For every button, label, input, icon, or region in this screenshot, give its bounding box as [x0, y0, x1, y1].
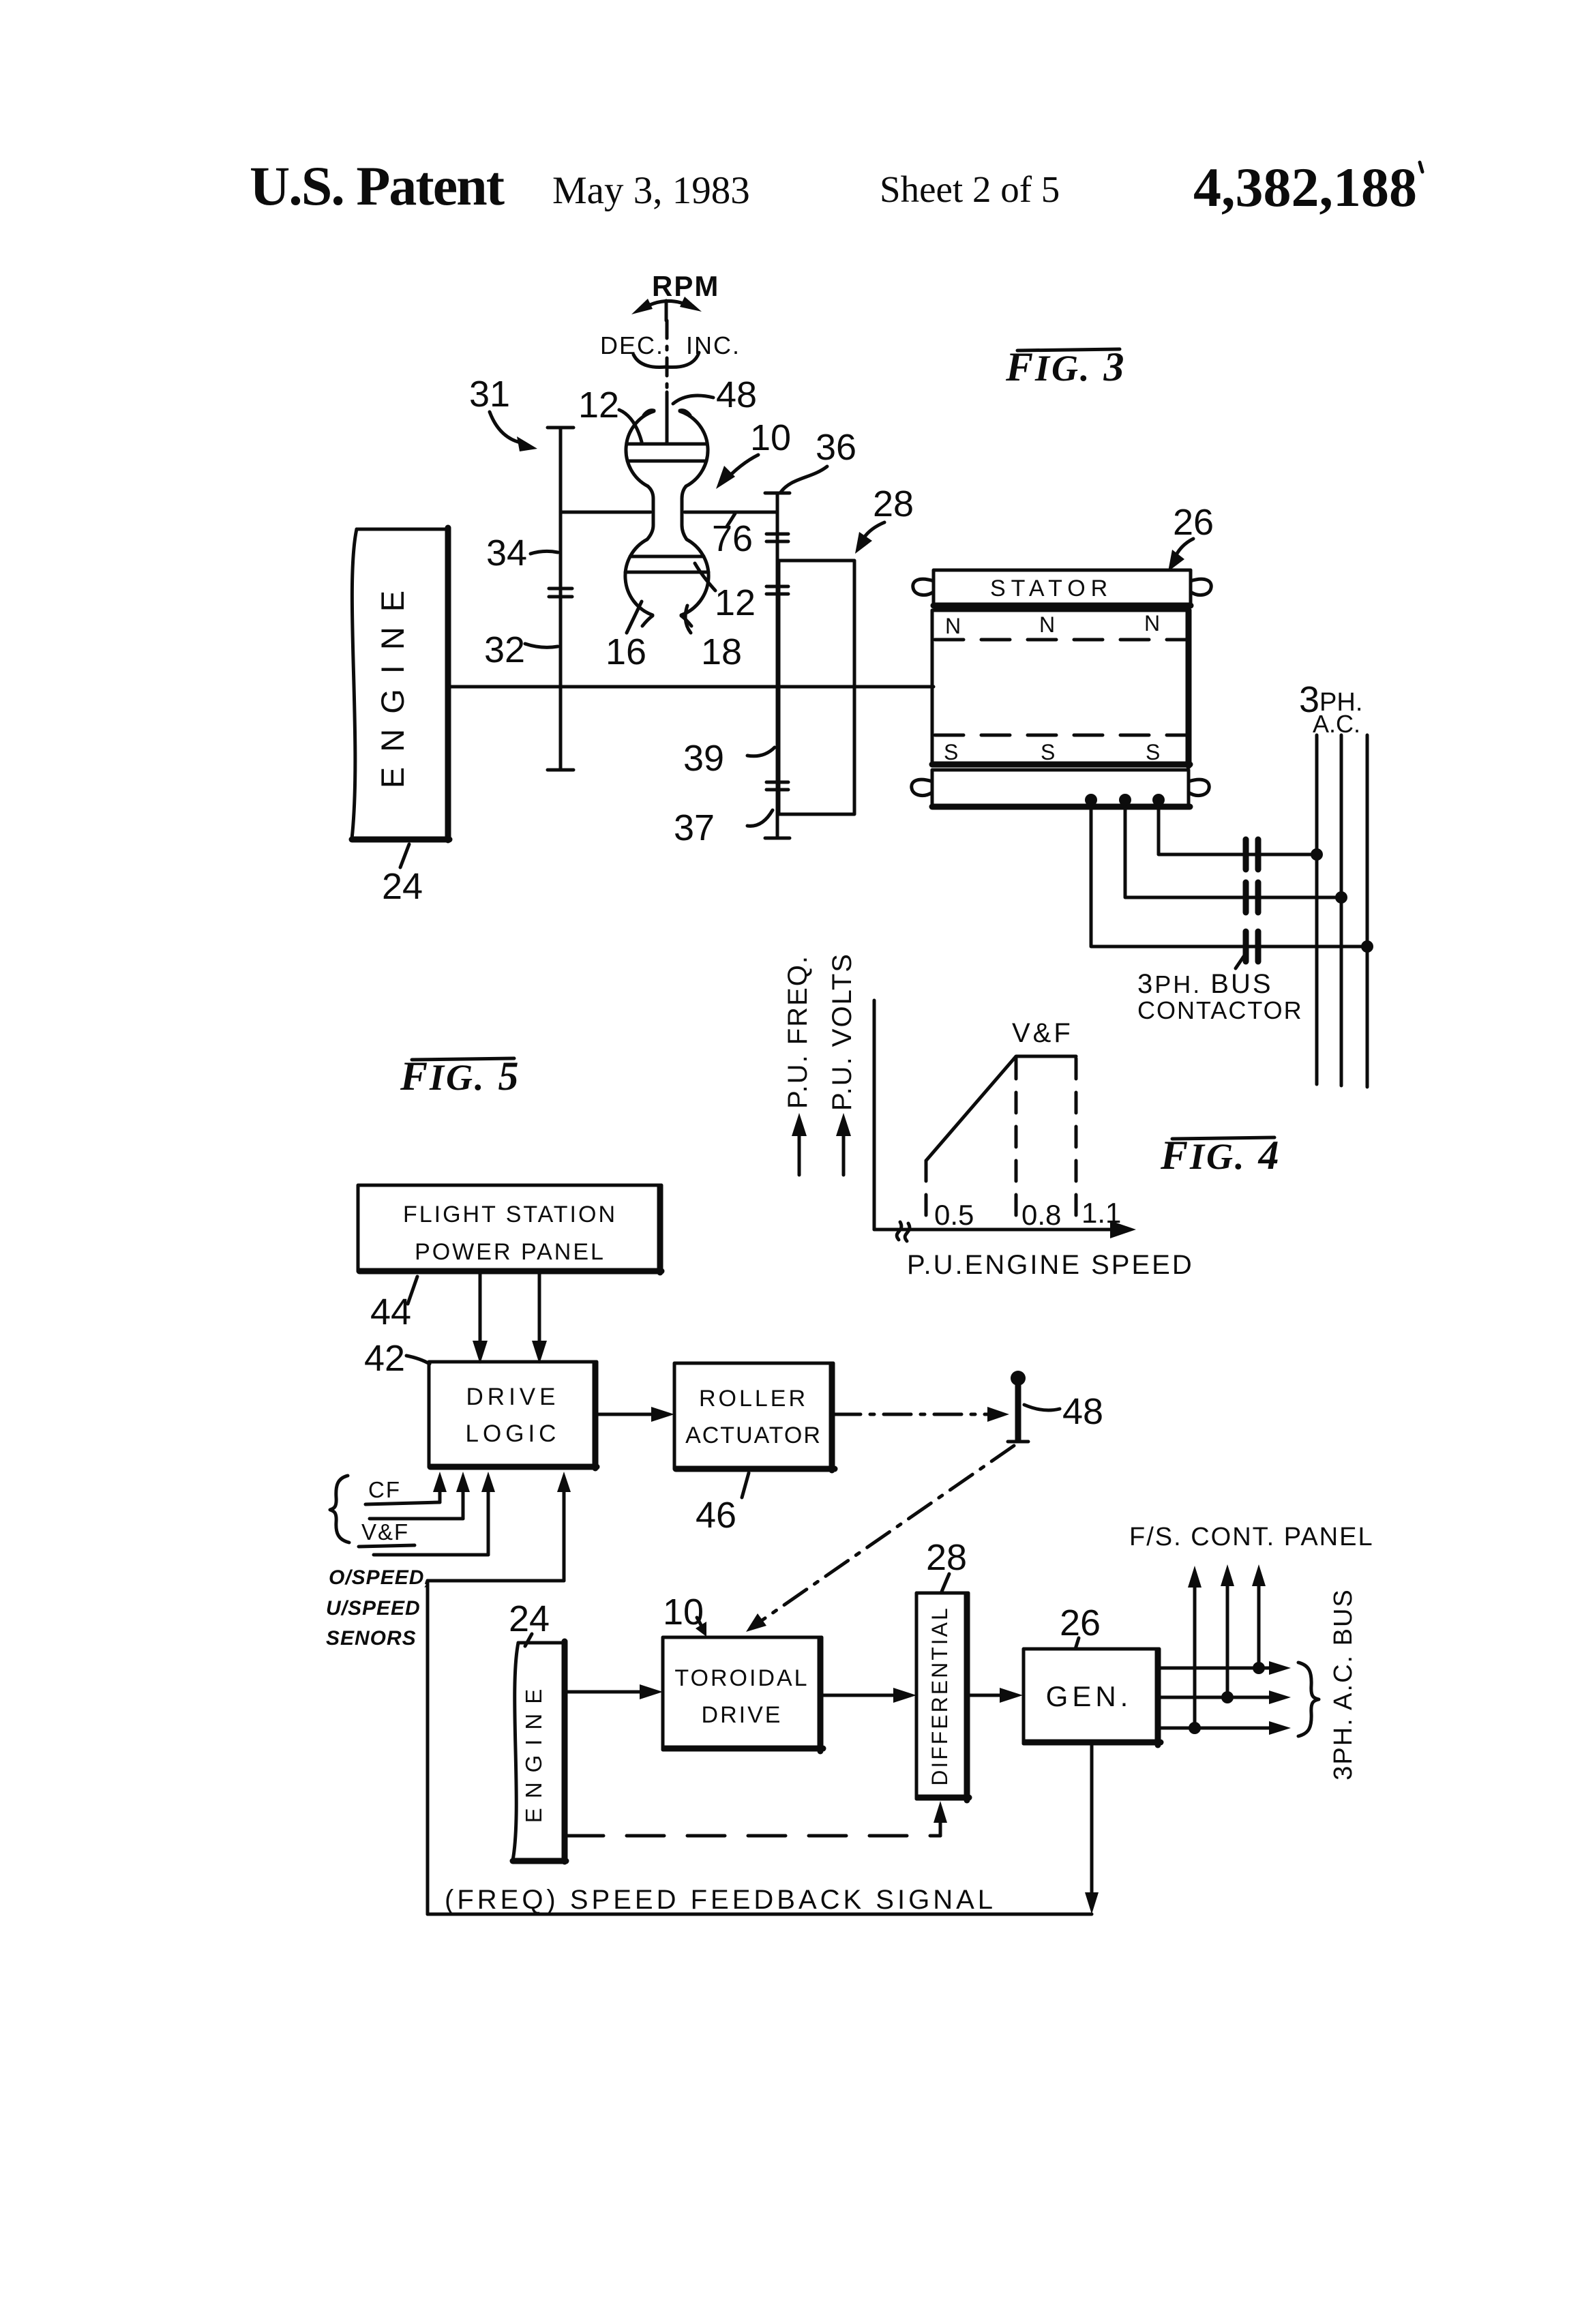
fig4 dashed drop at 0.5 — [925, 1161, 928, 1227]
svg-text:36: 36 — [816, 427, 856, 468]
F/S riser wire 2 — [1221, 1564, 1234, 1703]
label 10 with arrow — [716, 417, 791, 489]
reaction member vertical line 31 — [548, 428, 573, 770]
svg-text:3PH. BUS: 3PH. BUS — [1137, 969, 1273, 999]
svg-text:28: 28 — [873, 483, 914, 524]
label 24 (fig5) — [509, 1598, 550, 1646]
svg-text:FLIGHT STATION: FLIGHT STATION — [403, 1202, 617, 1227]
svg-text:10: 10 — [663, 1592, 704, 1633]
svg-text:N: N — [945, 614, 961, 638]
svg-text:31: 31 — [469, 374, 510, 415]
fig4 V and F curve — [926, 1056, 1076, 1161]
phase wire A (bottom) — [1091, 806, 1367, 947]
svg-text:O/SPEED,: O/SPEED, — [329, 1566, 431, 1589]
differential box 28 (fig3) — [779, 561, 854, 814]
roller actuator box 46 — [674, 1363, 835, 1470]
svg-text:42: 42 — [364, 1338, 405, 1379]
svg-text:37: 37 — [674, 807, 715, 848]
wire arrow engine to toroidal drive — [566, 1684, 663, 1699]
svg-text:INC.: INC. — [686, 331, 741, 359]
bus line 1 — [1315, 735, 1319, 1084]
rotor box — [932, 610, 1190, 766]
contactor gap on phase A — [1246, 932, 1258, 962]
label 24 (fig3) — [382, 844, 423, 907]
middle input wire with arrow — [370, 1472, 470, 1519]
terminal dot B — [1119, 794, 1131, 806]
drive logic box 42 — [429, 1362, 597, 1468]
toroidal drive box 10 — [663, 1637, 823, 1751]
svg-text:12: 12 — [715, 582, 756, 623]
toroidal waist neck — [647, 486, 687, 539]
brace for CF and V&F inputs — [330, 1476, 349, 1543]
svg-text:0.5: 0.5 — [934, 1199, 974, 1231]
label 37 — [674, 807, 773, 848]
rotor pole labels N N N — [945, 611, 1160, 638]
CF input wire with arrow — [365, 1472, 447, 1504]
bus junction dot 2 — [1335, 891, 1347, 904]
svg-text:34: 34 — [486, 533, 527, 573]
wire arrow differential to gen — [969, 1688, 1023, 1703]
rotor dashed flux line (bottom) — [935, 734, 1186, 737]
contactor gap on phase B — [1246, 882, 1258, 912]
svg-text:TOROIDAL: TOROIDAL — [674, 1665, 809, 1691]
svg-text:46: 46 — [696, 1495, 736, 1536]
fig4 dashed drop at 0.8 — [1015, 1058, 1018, 1227]
bracket under DEC / INC — [633, 353, 699, 368]
contactor leader tick — [1236, 953, 1246, 968]
svg-text:3PH. A.C. BUS: 3PH. A.C. BUS — [1329, 1588, 1358, 1781]
svg-text:May 3, 1983: May 3, 1983 — [552, 169, 750, 212]
terminal dot A — [1085, 794, 1097, 806]
svg-text:U/SPEED: U/SPEED — [326, 1597, 421, 1620]
dash-dot wire roller actuator to 48 — [833, 1407, 1009, 1422]
wire arrow drive logic to roller actuator — [597, 1407, 674, 1422]
gen output wire 3 — [1159, 1721, 1291, 1735]
label 34 — [486, 533, 558, 573]
wire arrow panel to drive logic (left) — [473, 1272, 488, 1364]
gen box 26 (fig5) — [1024, 1649, 1161, 1745]
svg-text:ROLLER: ROLLER — [699, 1386, 808, 1412]
rotor dashed flux line (top) — [935, 638, 1186, 642]
fig4 x-axis with arrow — [874, 1221, 1136, 1238]
speed feedback bottom wire — [428, 1913, 1092, 1916]
P.U. VOLTS arrow — [836, 1113, 851, 1175]
svg-text:RPM: RPM — [652, 270, 719, 302]
label 28 (fig5) — [926, 1537, 967, 1592]
svg-text:ENGINE: ENGINE — [374, 576, 411, 788]
control axis dash-dot line — [666, 321, 669, 443]
svg-text:N: N — [1144, 611, 1160, 636]
svg-text:76: 76 — [712, 518, 753, 559]
svg-text:A.C.: A.C. — [1313, 710, 1360, 738]
svg-text:U.S. Patent: U.S. Patent — [250, 155, 505, 217]
svg-text:48: 48 — [716, 374, 757, 415]
terminal bar right hook — [1189, 779, 1209, 795]
roller disc 12 (top) — [626, 411, 708, 486]
svg-text:CONTACTOR: CONTACTOR — [1137, 996, 1303, 1024]
bus junction dot 1 — [1311, 848, 1323, 861]
bus junction dot 3 — [1361, 940, 1373, 953]
svg-text:32: 32 — [484, 629, 525, 670]
svg-text:(FREQ) SPEED FEEDBACK SIGNAL: (FREQ) SPEED FEEDBACK SIGNAL — [445, 1885, 996, 1915]
label 26 with arrow (fig3) — [1168, 502, 1214, 571]
svg-text:P.U.ENGINE SPEED: P.U.ENGINE SPEED — [907, 1250, 1194, 1280]
wire 76 horizontal (left of neck) — [561, 511, 651, 514]
svg-text:4,382,188: 4,382,188 — [1193, 156, 1417, 218]
label 39 — [683, 738, 775, 779]
differential box 28 (fig5) — [916, 1593, 969, 1800]
svg-text:ENGINE: ENGINE — [521, 1680, 546, 1823]
label 16 — [606, 601, 646, 672]
svg-text:24: 24 — [509, 1598, 550, 1639]
svg-text:1.1: 1.1 — [1081, 1197, 1121, 1229]
svg-text:S: S — [944, 740, 958, 764]
main shaft wire from engine to generator — [448, 685, 934, 689]
wire arrow panel to drive logic (right) — [532, 1272, 547, 1364]
svg-text:CF: CF — [368, 1477, 401, 1502]
stator left hook — [913, 579, 934, 595]
label 48 (control axis) — [673, 374, 757, 415]
FIG. 4 caption — [1160, 1133, 1281, 1178]
roller disc 16 (bottom) — [625, 539, 708, 626]
phase wire B (middle) — [1125, 806, 1341, 897]
svg-text:0.8: 0.8 — [1021, 1199, 1061, 1231]
label 32 — [484, 629, 558, 670]
terminal dot C — [1152, 794, 1165, 806]
label 12 (bottom roller) — [695, 563, 756, 623]
roller control shaft 48 (fig5) — [1008, 1371, 1028, 1442]
svg-text:44: 44 — [370, 1292, 411, 1332]
wire arrow toroidal drive to differential — [823, 1688, 916, 1703]
terminal bar left hook — [912, 779, 932, 795]
FIG. 3 caption — [1005, 344, 1126, 389]
svg-text:Sheet 2 of 5: Sheet 2 of 5 — [880, 168, 1060, 210]
svg-text:28: 28 — [926, 1537, 967, 1578]
O/SPEED U/SPEED SENORS label — [326, 1566, 431, 1650]
wire 76 horizontal (right of neck) — [685, 511, 777, 514]
label 42 — [364, 1338, 430, 1379]
dashed wire engine to differential — [566, 1801, 947, 1836]
gen output wire 1 — [1159, 1661, 1291, 1675]
svg-text:10: 10 — [750, 417, 791, 458]
svg-text:SENORS: SENORS — [326, 1627, 417, 1650]
svg-text:LOGIC: LOGIC — [466, 1420, 561, 1447]
label 44 — [370, 1277, 417, 1332]
svg-text:S: S — [1146, 740, 1160, 764]
F/S riser wire 1 — [1188, 1566, 1202, 1734]
label 18 — [685, 606, 742, 672]
differential input shaft line 36 — [765, 493, 790, 838]
speed sensors input wire with arrow — [428, 1472, 571, 1914]
svg-text:39: 39 — [683, 738, 724, 779]
svg-text:F/S. CONT. PANEL: F/S. CONT. PANEL — [1129, 1523, 1374, 1551]
label 36 — [780, 427, 856, 493]
svg-text:STATOR: STATOR — [990, 576, 1113, 601]
label 12 (top roller) — [578, 385, 642, 442]
label 48 (fig5) — [1024, 1391, 1103, 1432]
svg-text:S: S — [1041, 740, 1055, 764]
svg-text:DRIVE: DRIVE — [466, 1384, 560, 1410]
svg-text:N: N — [1039, 612, 1055, 637]
F/S riser wire 3 — [1252, 1564, 1266, 1674]
svg-text:12: 12 — [578, 385, 619, 426]
svg-text:POWER PANEL: POWER PANEL — [415, 1239, 606, 1265]
svg-text:V&F: V&F — [1012, 1018, 1073, 1048]
label 28 with arrow (fig3) — [855, 483, 914, 554]
dash-dot wire 48 to toroidal drive — [746, 1446, 1014, 1632]
P.U. FREQ. arrow — [792, 1113, 807, 1175]
FIG. 5 caption — [400, 1054, 521, 1099]
fig4 axis break symbol — [897, 1222, 910, 1241]
RPM rotation arrow — [631, 297, 702, 321]
gen output wire 2 — [1159, 1690, 1291, 1704]
V&F input wire with arrow — [359, 1472, 495, 1555]
svg-text:ACTUATOR: ACTUATOR — [685, 1422, 822, 1448]
svg-text:48: 48 — [1062, 1391, 1103, 1432]
label 31 with arrow — [469, 374, 537, 451]
bus line 2 — [1340, 735, 1343, 1086]
svg-text:P.U. FREQ.: P.U. FREQ. — [783, 955, 813, 1109]
svg-text:P.U. VOLTS: P.U. VOLTS — [827, 953, 857, 1111]
svg-text:V&F: V&F — [361, 1519, 409, 1545]
svg-text:16: 16 — [606, 631, 646, 672]
label 76 — [712, 513, 753, 559]
bus line 3 — [1366, 735, 1369, 1087]
svg-text:24: 24 — [382, 866, 423, 907]
brace for 3PH AC BUS — [1298, 1663, 1319, 1736]
flight station power panel box 44 — [358, 1185, 661, 1272]
svg-text:DIFFERENTIAL: DIFFERENTIAL — [927, 1606, 952, 1786]
contactor gap on phase C — [1246, 839, 1258, 869]
rotor pole labels S S S — [944, 740, 1160, 764]
fig4 dashed drop at 1.1 — [1075, 1058, 1078, 1227]
label 46 — [696, 1473, 749, 1536]
engine block 24 (fig5) — [513, 1641, 566, 1862]
svg-text:26: 26 — [1173, 502, 1214, 543]
label 26 (fig5) — [1060, 1603, 1101, 1649]
fig4 y-axis — [873, 1000, 876, 1230]
svg-text:18: 18 — [701, 631, 742, 672]
gen speed feedback drop wire — [1085, 1745, 1099, 1914]
label 10 (fig5) — [663, 1592, 706, 1637]
terminal bar (brush block) — [932, 770, 1190, 807]
svg-text:DRIVE: DRIVE — [702, 1702, 783, 1728]
phase wire C (top) — [1159, 806, 1317, 854]
engine block 24 (fig3) — [352, 528, 449, 840]
stator bar 26 — [934, 570, 1191, 606]
svg-text:GEN.: GEN. — [1046, 1680, 1133, 1712]
stator right hook — [1191, 579, 1211, 595]
